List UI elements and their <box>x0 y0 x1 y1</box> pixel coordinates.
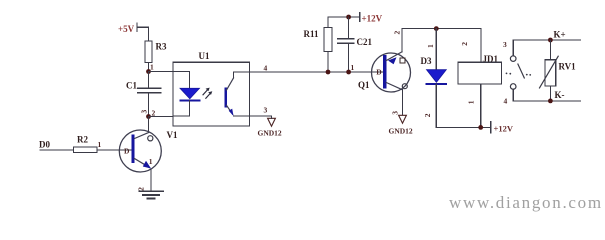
LED cathode wire to pin2 <box>173 100 190 116</box>
node 2 <box>139 109 155 119</box>
Q1 collector wire down <box>402 90 404 115</box>
power +12V (top middle) <box>328 13 383 24</box>
node K- rail <box>513 90 580 103</box>
svg-text:1: 1 <box>467 100 476 104</box>
wire V1 emitter down <box>150 170 152 192</box>
light arrows <box>203 88 212 99</box>
wire node2 to U1 pin2 <box>149 116 174 118</box>
svg-text:C21: C21 <box>357 37 373 47</box>
svg-text:4: 4 <box>504 97 508 106</box>
svg-text:2: 2 <box>460 42 469 46</box>
diode D3 <box>421 29 447 128</box>
svg-text:GND12: GND12 <box>389 127 413 136</box>
svg-text:2: 2 <box>393 31 402 35</box>
svg-text:D: D <box>376 68 382 77</box>
svg-text:D3: D3 <box>421 56 432 66</box>
svg-text:R2: R2 <box>77 135 88 145</box>
svg-text:Q1: Q1 <box>358 80 370 90</box>
wire D0 to R2 <box>40 149 74 151</box>
power +12V (bottom right) <box>491 122 514 134</box>
svg-text:V1: V1 <box>167 130 178 140</box>
svg-text:3: 3 <box>264 106 268 115</box>
relay contact <box>506 56 531 89</box>
ground GND12 (Q1 collector) <box>389 115 413 135</box>
ground (V1 emitter) <box>137 187 163 199</box>
svg-text:K-: K- <box>555 90 565 100</box>
wire node1 down to C1 <box>148 72 150 89</box>
contact pin 3 wire <box>503 40 513 56</box>
wire R3 to node 1 <box>148 63 150 72</box>
svg-text:D0: D0 <box>39 140 50 150</box>
node 1 (Q1 base net) <box>346 63 354 74</box>
optocoupler U1 box <box>173 51 250 126</box>
node K+ rail <box>513 30 580 43</box>
svg-text:C1: C1 <box>126 81 137 91</box>
svg-text:3: 3 <box>503 40 507 49</box>
wire R2 to V1 base <box>97 149 132 151</box>
svg-text:4: 4 <box>264 64 268 73</box>
svg-text:K+: K+ <box>554 30 566 40</box>
capacitor C21 <box>338 15 373 72</box>
svg-text:1: 1 <box>426 44 435 48</box>
resistor R2 <box>74 135 102 153</box>
relay JD1 <box>458 29 502 128</box>
svg-text:2: 2 <box>137 187 146 191</box>
resistor R3 <box>145 41 167 63</box>
LED inside U1 <box>180 88 200 100</box>
node D3 top junction <box>434 26 439 31</box>
svg-text:3: 3 <box>139 110 148 114</box>
wire node1 to U1 pin1 <box>149 71 174 73</box>
svg-text:2: 2 <box>423 113 432 117</box>
svg-text:R3: R3 <box>156 42 167 52</box>
resistor R11 <box>304 17 333 72</box>
U1 pin3 wire <box>234 106 272 117</box>
svg-text:D: D <box>124 147 130 156</box>
varistor RV1 <box>540 40 577 101</box>
power +5V <box>118 23 149 41</box>
svg-text:+5V: +5V <box>118 24 135 34</box>
wire C1 to node 2 <box>148 93 150 117</box>
svg-text:www.diangon.com: www.diangon.com <box>449 193 603 212</box>
wire node2 down to V1 collector <box>148 117 150 133</box>
capacitor C1 <box>126 81 161 93</box>
svg-text:RV1: RV1 <box>559 62 577 72</box>
phototransistor in U1 <box>226 78 234 116</box>
svg-text:U1: U1 <box>199 51 210 61</box>
U1 pin4 wire (to Q1 base) <box>234 64 384 79</box>
svg-text:1: 1 <box>149 157 153 166</box>
ground GND12 (U1 pin3) <box>258 116 282 138</box>
svg-text:1: 1 <box>98 140 102 149</box>
svg-text:3: 3 <box>390 111 399 115</box>
svg-text:+12V: +12V <box>494 124 514 134</box>
svg-text:1: 1 <box>351 63 355 72</box>
svg-text:R11: R11 <box>304 29 320 39</box>
transistor Q1 <box>358 52 411 92</box>
contact pin 4 wire <box>504 89 514 105</box>
svg-text:1: 1 <box>150 63 154 72</box>
U1 internal LED wiring <box>173 72 190 89</box>
node R11/wire junction <box>326 70 331 75</box>
transistor V1 <box>119 130 178 172</box>
bottom rail (+12V relay net) <box>436 126 490 128</box>
svg-text:+12V: +12V <box>362 14 383 24</box>
node 1 <box>146 63 154 74</box>
top rail (Q1 emitter net) <box>402 28 481 30</box>
Q1 emitter wire up <box>401 29 403 52</box>
svg-text:GND12: GND12 <box>258 129 282 138</box>
